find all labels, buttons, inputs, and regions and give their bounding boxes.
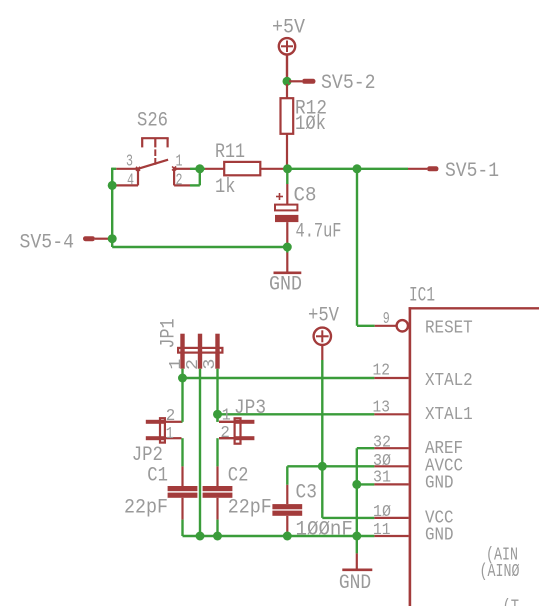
svg-text:2: 2 [176,171,183,190]
svg-text:IC1: IC1 [409,285,435,308]
header JP1 [178,334,222,369]
svg-text:13: 13 [373,399,391,418]
svg-text:9: 9 [383,310,390,329]
node junction +5V/SV5-2/R12 [283,77,292,86]
node junction JP1.1/XTAL2 [178,374,187,383]
svg-text:GND: GND [425,473,454,493]
IC1 frame [409,307,539,606]
node junction R11/R12/C8 [283,164,292,173]
svg-text:SV5-2: SV5-2 [321,72,376,95]
pin 30 AVCC [374,465,408,467]
svg-text:SV5-1: SV5-1 [445,160,499,183]
node junction AREF/GND31 [352,480,361,489]
svg-text:C3: C3 [296,482,317,505]
wire JP1.3 to XTAL1 net [218,369,375,422]
supply symbol +5V (middle) [314,328,331,360]
svg-text:XTAL1: XTAL1 [425,405,473,425]
supply symbol +5V (top) [279,38,295,78]
svg-text:12: 12 [373,361,391,380]
svg-text:C2: C2 [228,465,249,488]
pin 32 AREF [374,447,408,449]
wire JP1.2 to GND rail [199,369,201,536]
pin 31 GND [374,483,408,485]
pin 9 RESET with inversion bubble [375,320,408,331]
resistor R12 [281,84,294,169]
ground symbol GND (C8) [274,247,302,273]
node junction JP1.3/JP3.1/XTAL1 [213,410,222,419]
capacitor C8 [275,169,298,247]
svg-text:1: 1 [222,407,231,426]
connector pin SV5-1 [408,166,439,171]
svg-text:1k: 1k [215,176,236,199]
node junction S26 pin1/R11 [195,164,204,173]
svg-text:1Ø: 1Ø [373,503,391,522]
wire JP3.2 to C2 [216,438,218,466]
svg-text:S26: S26 [137,110,168,133]
pin 13 XTAL1 [374,413,408,415]
svg-text:1Øk: 1Øk [295,113,326,136]
svg-text:32: 32 [373,433,391,452]
svg-text:R11: R11 [215,141,245,164]
header JP2 [146,418,182,442]
node junction +5V/AVCC [318,462,327,471]
node junction rail/C2 [213,532,222,541]
capacitor C2 [203,466,233,536]
header JP3 [219,418,254,443]
wire +5V to AVCC/VCC [322,360,374,518]
pin 10 VCC [374,517,408,519]
svg-text:+5V: +5V [272,16,305,39]
wire AVCC net [287,466,374,485]
node junction rail/JP1.2 [196,532,205,541]
node junction net/RESET drop [353,164,362,173]
svg-text:(AINØ: (AINØ [480,562,520,582]
svg-text:4.7uF: 4.7uF [296,220,342,243]
svg-text:GND: GND [425,526,454,546]
wire GND rail [183,535,375,537]
svg-text:1ØØnF: 1ØØnF [296,519,353,542]
resistor R11 [205,162,288,175]
wire JP3.1 from node [216,414,218,422]
wire JP1.1 to XTAL2 net [183,369,375,422]
svg-text:C1: C1 [147,465,168,488]
svg-text:3: 3 [126,153,133,172]
wire S26 pin3/pin4 left loop [112,168,116,247]
svg-text:JP2: JP2 [132,444,163,467]
svg-text:JP3: JP3 [234,397,266,420]
svg-text:2: 2 [220,424,230,443]
wire JP2.2 to JP1.1 [182,421,183,423]
node junction rail/AREF [352,532,361,541]
wire net to RESET [357,169,375,326]
svg-text:11: 11 [373,521,391,540]
svg-text:XTAL2: XTAL2 [425,371,473,391]
connector pin SV5-2 [289,79,316,84]
switch S26 [116,138,190,185]
wire AREF net [357,448,375,536]
svg-text:3: 3 [201,359,220,370]
svg-text:+5V: +5V [308,305,339,328]
wire SV5-4 to C8/GND rail [112,246,287,248]
svg-text:JP1: JP1 [158,319,181,349]
svg-text:(T: (T [503,598,520,606]
pin 12 XTAL2 [374,377,408,379]
svg-text:GND: GND [339,572,371,595]
wire S26 pin1/pin2 right loop [190,169,205,186]
wire JP2.1 to C1 [181,438,183,466]
pin 11 GND [374,535,408,537]
svg-text:C8: C8 [294,185,317,208]
svg-text:GND: GND [269,274,302,297]
svg-text:22pF: 22pF [228,497,272,520]
svg-text:RESET: RESET [425,319,473,339]
svg-text:1: 1 [176,153,183,172]
svg-text:SV5-4: SV5-4 [20,231,75,254]
wire main net to SV5-1 [288,168,409,170]
svg-text:1: 1 [166,425,174,444]
connector pin SV5-4 [83,236,111,241]
capacitor C1 [168,466,198,536]
svg-text:4: 4 [127,171,134,190]
node junction SV5-4 [108,234,117,243]
node junction S26 pin4 [108,181,117,190]
node junction rail/C3 [283,532,292,541]
ground symbol GND (bottom) [342,536,372,570]
svg-text:22pF: 22pF [124,497,168,520]
svg-text:31: 31 [373,469,391,488]
capacitor C3 [272,485,302,536]
node junction C8/GND/SV5-4 [283,243,292,252]
svg-text:2: 2 [166,407,176,426]
